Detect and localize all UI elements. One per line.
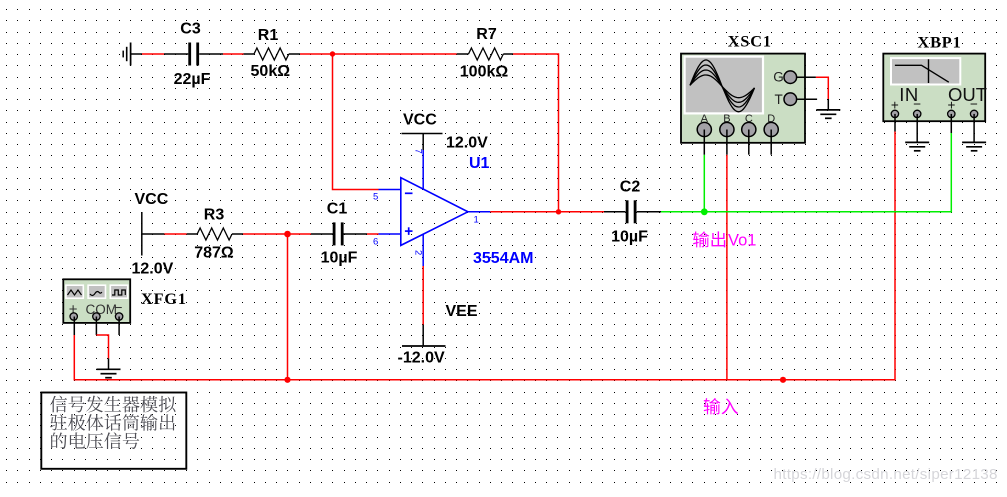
svg-text:50kΩ: 50kΩ (251, 63, 291, 80)
wire XSC1 A to Vo1 node (green) (703, 155, 705, 212)
resistor R7 (469, 48, 504, 60)
svg-text:12.0V: 12.0V (446, 135, 488, 152)
svg-text:10µF: 10µF (321, 250, 358, 267)
svg-text:XFG1: XFG1 (141, 290, 187, 308)
annotation text line2 驻极体话筒输出 (50, 414, 175, 431)
svg-text:https://blog.csdn.net/siper121: https://blog.csdn.net/siper12138 (774, 466, 998, 483)
wire XFG1 + down to bus (73, 317, 75, 336)
wire XSC1 T stub (797, 98, 818, 100)
svg-text:6: 6 (373, 237, 378, 248)
svg-text:VCC: VCC (403, 112, 437, 129)
wire XBP1 IN+ to bus (894, 114, 896, 132)
svg-text:10µF: 10µF (611, 229, 648, 246)
svg-text:XSC1: XSC1 (728, 32, 772, 50)
wire GND1 to C3 (142, 53, 188, 55)
power VEE bar (402, 345, 446, 347)
svg-text:2: 2 (413, 250, 424, 255)
svg-text:100kΩ: 100kΩ (460, 64, 509, 81)
XBP1 terminal OUT+ (948, 110, 955, 117)
power VCC (left source) (141, 212, 143, 256)
ground GND2 (below XFG1 COM) (97, 369, 121, 377)
XSC1 terminal T (784, 93, 797, 106)
pin 1 stub (output) (468, 211, 490, 213)
XSC1 D pin stub (770, 130, 772, 155)
pin 5 stub (379, 189, 401, 191)
svg-text:COM: COM (86, 302, 118, 317)
XSC1 terminal C (742, 122, 756, 136)
svg-text:1: 1 (474, 215, 479, 226)
XSC1 terminal G (784, 71, 797, 84)
ground GND5 (XBP1 OUT-) (962, 142, 986, 150)
pin 2 stub (422, 235, 424, 267)
XSC1 terminal B (720, 122, 734, 136)
ground GND3 (XSC1) (816, 110, 840, 118)
instrument XFG1 function generator (63, 279, 130, 323)
svg-text:R7: R7 (476, 26, 497, 43)
wire XFG1 COM to ground (96, 317, 108, 370)
XFG1 square-wave icon (112, 290, 125, 295)
svg-text:−: − (913, 96, 921, 111)
XSC1 terminal A (697, 122, 711, 136)
XFG1 terminal - (115, 313, 122, 320)
svg-text:5: 5 (373, 192, 378, 203)
capacitor C1 (333, 222, 344, 245)
XBP1 screen curve (895, 59, 949, 83)
svg-text:−: − (970, 96, 978, 111)
svg-text:U1: U1 (469, 155, 490, 172)
svg-text:22µF: 22µF (174, 71, 211, 88)
op-amp U1 3554AM (401, 178, 468, 246)
XFG1 sine-wave icon (90, 292, 102, 296)
svg-text:C3: C3 (180, 21, 201, 38)
junction node feedback-top (330, 51, 335, 56)
svg-text:12.0V: 12.0V (132, 261, 174, 278)
svg-text:C1: C1 (327, 201, 348, 218)
XSC1 A pin stub (703, 130, 705, 155)
wire XSC1 B down to bottom bus (red) (726, 155, 728, 380)
svg-text:T: T (775, 92, 783, 107)
annotation text line3 的电压信号 (51, 432, 139, 449)
instrument XBP1 bode plotter (883, 54, 985, 122)
svg-text:R3: R3 (204, 207, 225, 224)
capacitor C2 (626, 200, 637, 223)
junction node bus-left (284, 377, 290, 383)
pin 7 stub (422, 150, 424, 189)
XFG1 terminal + (70, 313, 77, 320)
ground GND4 (XBP1 IN-) (905, 142, 929, 150)
bottom bus wire (red) (74, 132, 895, 380)
wire XBP1 OUT+ stub (950, 114, 952, 133)
power VCC (op-amp) (402, 134, 443, 151)
wire R7 to output node (503, 54, 558, 212)
wire VCC to R3 (142, 233, 197, 235)
XSC1 C pin stub (748, 130, 750, 155)
junction node input-mid (284, 231, 291, 238)
wire C1 to pin6 (343, 233, 378, 235)
junction node output (556, 209, 561, 214)
wire R3 to C1 (232, 233, 334, 235)
junction node bus-right (780, 377, 786, 383)
pin 6 stub (379, 233, 401, 235)
instrument XSC1 oscilloscope (681, 54, 805, 143)
net label 输入 (704, 398, 738, 414)
XBP1 terminal IN- (914, 110, 921, 117)
svg-text:Vo1: Vo1 (728, 231, 756, 249)
wire output to C2 (490, 211, 625, 213)
wire feedback junction down to pin5 (333, 54, 379, 190)
wire junction down to bottom bus (287, 234, 289, 380)
capacitor C3 (188, 43, 199, 66)
svg-text:3554AM: 3554AM (473, 250, 533, 267)
op-amp minus symbol (405, 192, 413, 194)
svg-text:XBP1: XBP1 (918, 33, 962, 51)
annotation box (41, 393, 186, 469)
wire pin2 to VEE (422, 266, 424, 346)
svg-text:C2: C2 (620, 179, 641, 196)
wire XBP1 IN- to ground (916, 114, 918, 142)
svg-text:-12.0V: -12.0V (398, 350, 445, 367)
wire R1 to R7 (red bus top) (289, 53, 469, 55)
junction node Vo1 (green) (701, 208, 708, 215)
net label 输出Vo1 (693, 231, 756, 249)
svg-text:R1: R1 (258, 27, 279, 44)
svg-text:G: G (773, 70, 784, 85)
wire XFG1 - stub (118, 317, 120, 336)
XFG1 terminal COM (93, 313, 100, 320)
XSC1 terminal D (764, 122, 778, 136)
wire XBP1 OUT- to ground (973, 114, 975, 142)
XBP1 terminal IN+ (891, 110, 898, 117)
ground GND1 (left, rotated) (123, 43, 142, 66)
wire XSC1 G to ground (797, 77, 829, 110)
svg-text:787Ω: 787Ω (194, 245, 234, 262)
resistor R1 (254, 48, 289, 60)
annotation text line1 信号发生器模拟 (50, 396, 175, 413)
XFG1 triangle-wave icon (68, 290, 82, 295)
wire C2 to XBP1 OUT+ (green net) (637, 133, 952, 212)
XSC1 B pin stub (726, 130, 728, 155)
svg-text:7: 7 (413, 149, 424, 154)
svg-text:VEE: VEE (446, 303, 478, 320)
XSC1 screen waveforms (690, 60, 755, 112)
op-amp plus symbol (405, 227, 413, 235)
resistor R3 (197, 228, 232, 240)
svg-text:VCC: VCC (135, 191, 169, 208)
wire C3 to R1 (199, 53, 254, 55)
XBP1 terminal OUT- (970, 110, 977, 117)
